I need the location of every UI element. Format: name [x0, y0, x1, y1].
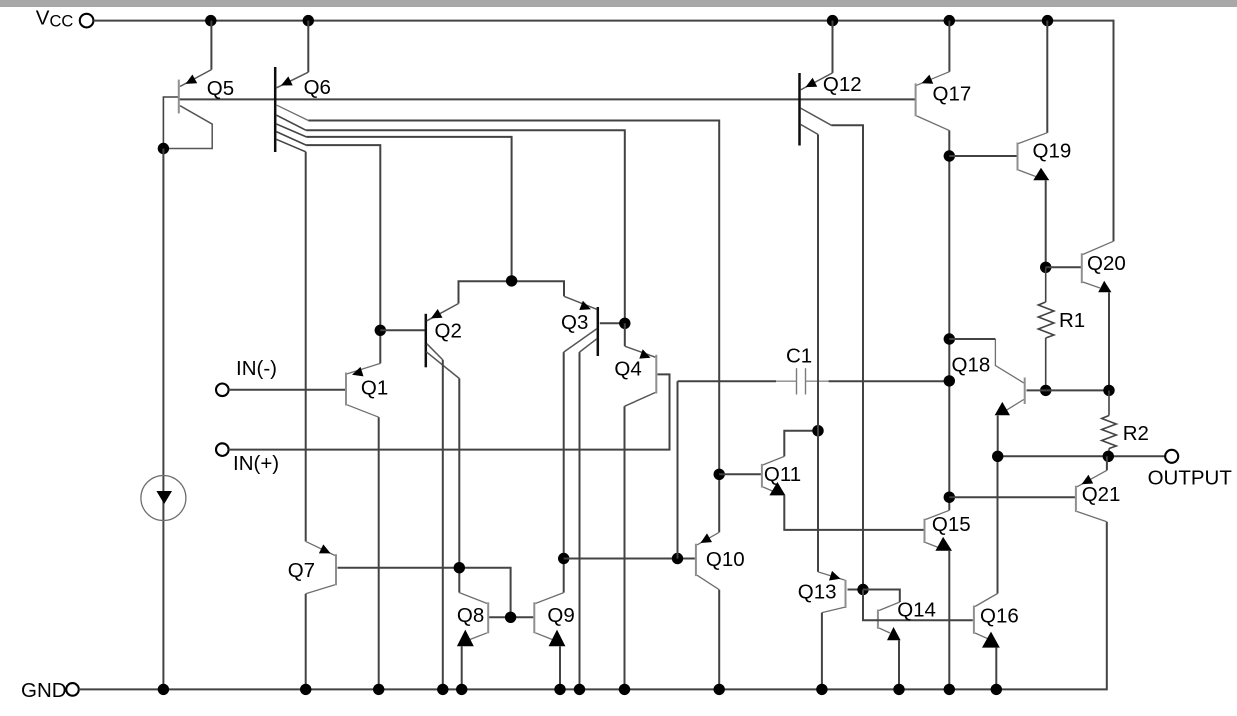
node VCC terminal circle: [80, 14, 94, 28]
wire Q6 collector1 to Q11 base column: [308, 121, 719, 533]
node VCC dot Q19: [1042, 15, 1053, 26]
node dot C1 left junction: [672, 553, 683, 564]
wire Q15 emitter to GND: [948, 551, 950, 690]
transistor Q20: [1082, 241, 1114, 292]
wire Q18 base to R2 top: [1027, 389, 1110, 391]
svg-text:Q5: Q5: [207, 77, 234, 100]
wire Q17 emitter to VCC: [948, 21, 950, 72]
wire Q18 emitter to output line: [997, 416, 999, 457]
wire Q3 collector2 to Q9 collector: [563, 352, 565, 592]
wire IN(-) to Q1 base: [229, 389, 345, 391]
transistor Q9: [534, 593, 565, 647]
transistor Q16: [974, 594, 1000, 648]
svg-text:OUTPUT: OUTPUT: [1148, 467, 1233, 490]
wire Q10 collector to GND: [718, 590, 720, 690]
wire Q6 collector3 to Q2 Q3 emitters: [306, 137, 511, 281]
node dot GND I1: [158, 684, 169, 695]
svg-text:Q21: Q21: [1082, 483, 1121, 506]
svg-text:Q16: Q16: [980, 605, 1019, 628]
wire Q8 emitter to GND: [461, 646, 463, 689]
current source I1 arrow: [156, 491, 172, 504]
wire VCC rail: [93, 21, 1113, 242]
wire Q6 emitter to VCC: [307, 21, 309, 73]
node VCC dot Q6: [303, 15, 314, 26]
wire Q4 emitter from dot: [624, 323, 626, 346]
wire Q1 collector to GND: [378, 417, 380, 689]
wire Q2 collector1 to GND: [442, 360, 444, 690]
node dot Q21 base Q15 collector junction: [944, 492, 955, 503]
svg-text:Q12: Q12: [823, 73, 862, 96]
node dot C1 right junction: [944, 375, 955, 386]
wire Q16 emitter to GND: [995, 648, 997, 690]
wire Q6 collector4 to Q1 emitter column: [306, 145, 380, 330]
transistor Q1: [346, 363, 380, 417]
svg-text:Q13: Q13: [798, 581, 837, 604]
node dot Q13 base Q14 junction: [857, 584, 868, 595]
node dot R1 bottom Q18 base: [1040, 385, 1051, 396]
svg-text:R2: R2: [1123, 422, 1149, 445]
wire Q2 emitter riser: [459, 281, 565, 303]
transistor Q19: [1018, 133, 1050, 181]
svg-text:Q18: Q18: [952, 354, 991, 377]
wire Q2 collector2 to Q8 collector: [458, 379, 460, 593]
resistor R2: [1102, 390, 1117, 456]
node dot GND Q13: [816, 684, 827, 695]
node IN(+) terminal circle: [216, 443, 229, 456]
transistor Q10: [696, 532, 719, 589]
svg-text:Q2: Q2: [435, 320, 462, 343]
svg-text:GND: GND: [21, 679, 67, 702]
wire C1 left lead: [678, 380, 777, 382]
transistor Q14: [878, 602, 901, 640]
wire IN(+) to Q4 base: [229, 374, 670, 449]
node OUTPUT terminal circle: [1165, 450, 1178, 463]
wire Q7 collector to GND: [305, 594, 307, 690]
node dot GND Q2: [437, 684, 448, 695]
svg-text:Q11: Q11: [764, 463, 801, 486]
wire Q6 collector2 to Q3 base column: [306, 130, 625, 323]
wire Q21 base: [949, 496, 1075, 498]
node dot Q5 collector-base: [158, 143, 169, 154]
svg-text:Q10: Q10: [706, 548, 745, 571]
svg-text:Q14: Q14: [897, 599, 936, 622]
svg-text:IN(-): IN(-): [236, 357, 277, 380]
transistor Q11: [762, 456, 786, 495]
wire Q19 emitter to Q20 base: [1045, 180, 1047, 267]
wire bias column to GND: [162, 149, 164, 690]
node VCC dot Q17: [944, 15, 955, 26]
wire Q13 collector to GND: [821, 613, 823, 690]
wire C1 right lead: [829, 380, 950, 382]
svg-text:C1: C1: [786, 345, 812, 368]
wire Q11 emitter to Q15 base: [784, 495, 923, 530]
svg-text:Q1: Q1: [361, 377, 388, 400]
svg-text:Q6: Q6: [304, 76, 331, 99]
wire Q1 emitter up: [379, 330, 381, 363]
node dot GND Q7: [300, 684, 311, 695]
transistor Q17: [916, 72, 950, 131]
node dot R2 top Q20 emitter: [1103, 385, 1114, 396]
svg-text:Q19: Q19: [1033, 140, 1072, 163]
wire Q3 base stub: [600, 322, 625, 324]
transistor Q5: [163, 70, 212, 149]
node dot Q18 collector junction: [944, 333, 955, 344]
svg-text:Q4: Q4: [614, 358, 641, 381]
node dot Q9 collector junction: [558, 553, 569, 564]
wire Q20 base: [1046, 266, 1081, 268]
wire Q9 emitter to GND: [559, 646, 561, 689]
wire GND rail: [79, 522, 1107, 690]
wire Q4 collector to GND: [624, 406, 626, 689]
wire Q11 collector to Q12 collector2: [784, 431, 818, 457]
node dot output Q18 Q16: [992, 451, 1003, 462]
wire Q13 base stub: [848, 589, 864, 591]
transistor Q2 dual-collector: [426, 304, 460, 379]
resistor R1: [1038, 267, 1054, 390]
wire Q12 emitter to VCC: [832, 21, 834, 73]
transistor Q6 multi-collector: [275, 67, 308, 152]
transistor Q21: [1076, 470, 1107, 522]
wire common base line Q5 Q6 Q12 Q17: [179, 98, 916, 100]
transistor Q12 multi-collector: [800, 73, 833, 146]
wire Q16 collector to output node: [997, 456, 999, 594]
node dot Q19 base junction: [944, 150, 955, 161]
node dot Q3 base Q4 emitter: [619, 318, 630, 329]
wire Q10 base line: [564, 558, 695, 560]
svg-text:Q20: Q20: [1087, 252, 1126, 275]
node dot Q1 emitter Q2 base: [375, 325, 386, 336]
node VCC dot Q5: [205, 15, 216, 26]
transistor Q4: [625, 346, 657, 406]
wire Q20 emitter to R2: [1108, 292, 1110, 390]
node dot GND Q15: [944, 684, 955, 695]
node dot Q11 collector junction: [812, 425, 823, 436]
node dot GND Q3: [574, 684, 585, 695]
wire Q14 base drop: [863, 590, 973, 621]
node IN(-) terminal circle: [216, 384, 229, 397]
node dot Q2 Q3 emitter junction: [506, 275, 517, 286]
wire Q12 collector1 to Q13 base column: [831, 125, 863, 589]
transistor Q8: [457, 593, 488, 647]
node dot GND Q1: [373, 684, 384, 695]
node dot Q7 base Q8 collector: [454, 562, 465, 573]
wire Q12 collector2 to Q13 emitter: [817, 134, 819, 572]
svg-text:Q15: Q15: [932, 513, 971, 536]
wire C1 left column: [677, 381, 679, 558]
transistor Q15: [925, 510, 953, 551]
wire Q5 base hook: [163, 97, 178, 149]
node GND terminal circle: [66, 683, 79, 696]
wire Q14 collector hook: [863, 590, 900, 603]
node dot GND Q14: [893, 684, 904, 695]
wire Q11 base: [719, 473, 761, 475]
svg-text:Q7: Q7: [288, 559, 315, 582]
svg-text:Q17: Q17: [933, 83, 972, 106]
svg-text:Q8: Q8: [457, 604, 484, 627]
svg-text:Q9: Q9: [547, 604, 574, 627]
wire Q19 collector to VCC: [1046, 21, 1048, 133]
wire Q8 base: [489, 616, 533, 618]
wire Q14 emitter to GND: [898, 640, 900, 689]
node dot GND Q4: [619, 684, 630, 695]
node dot Q11 base: [714, 469, 725, 480]
node dot Q8 Q9 base junction: [505, 612, 516, 623]
svg-text:IN(+): IN(+): [233, 452, 279, 475]
transistor Q18: [995, 339, 1025, 415]
node dot GND Q16: [991, 684, 1002, 695]
wire Q6 collector5 to Q7 emitter: [305, 152, 307, 542]
wire Q2 base: [380, 329, 424, 331]
svg-text:R1: R1: [1059, 309, 1085, 332]
node dot output R2 Q21: [1103, 451, 1114, 462]
node dot Q20 base R1 top: [1040, 262, 1051, 273]
wire Q18 collector to main column: [949, 338, 995, 340]
wire Q17 collector main column: [948, 131, 950, 511]
current source I1 circle: [141, 476, 186, 521]
transistor Q13: [818, 571, 846, 613]
wire Q21 emitter to output: [1106, 456, 1108, 470]
wire Q5 emitter to VCC: [210, 21, 212, 70]
node dot GND Q8: [456, 684, 467, 695]
node dot GND Q9: [554, 684, 565, 695]
top gray border bar: [0, 0, 1237, 7]
node dot GND Q10: [714, 684, 725, 695]
capacitor C1: [776, 368, 829, 394]
wire Q3 collector1 to GND: [579, 352, 581, 689]
wire Q7 base to Q8 Q9 bases: [338, 568, 511, 618]
node VCC dot Q12: [827, 15, 838, 26]
transistor Q3 dual-collector: [564, 296, 598, 356]
transistor Q7: [306, 541, 336, 593]
svg-text:Q3: Q3: [561, 311, 588, 334]
wire output line: [998, 455, 1165, 457]
wire Q19 base: [949, 155, 1016, 157]
